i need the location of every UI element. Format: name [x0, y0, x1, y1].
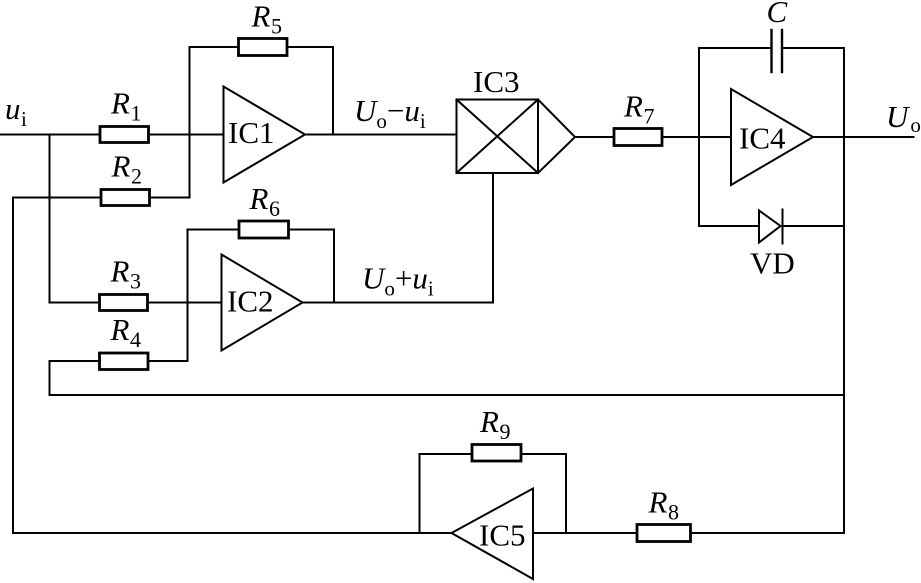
- svg-text:9: 9: [500, 419, 511, 444]
- resistor R7: [614, 129, 662, 146]
- svg-text:2: 2: [131, 164, 142, 189]
- wire R3 left: [50, 302, 100, 304]
- wire IC4 output Uo: [813, 136, 914, 138]
- wire R7 to IC4 input: [662, 136, 731, 138]
- op-amp IC1: [224, 87, 306, 183]
- svg-text:IC3: IC3: [473, 64, 520, 99]
- wire IC3 bottom input vertical: [492, 173, 494, 303]
- wire R6 top left: [188, 229, 240, 231]
- wire R4 drop vertical: [49, 361, 51, 395]
- wire R5 loop right vertical: [332, 47, 334, 135]
- wire R3 to IC2 input: [148, 302, 222, 304]
- capacitor C plates: [770, 30, 772, 72]
- wire input ui: [0, 134, 100, 136]
- wire R6 loop left vertical: [187, 230, 189, 362]
- wire R8 to IC5 input: [533, 532, 637, 534]
- wire R1 to IC1 input: [149, 134, 224, 136]
- wire feedback long horizontal: [50, 394, 845, 396]
- wire R2 left: [13, 197, 101, 199]
- wire R5 loop left vertical: [189, 47, 191, 198]
- svg-text:IC5: IC5: [479, 518, 526, 553]
- svg-text:IC2: IC2: [227, 284, 274, 319]
- svg-text:3: 3: [130, 269, 141, 294]
- resistor R5: [239, 39, 288, 56]
- svg-text:R: R: [110, 312, 130, 347]
- wire R9 top right: [521, 453, 566, 455]
- resistor R3: [100, 295, 148, 311]
- resistor R4: [100, 353, 149, 370]
- wire VD left: [699, 225, 759, 227]
- wire R2 right: [150, 197, 190, 199]
- wire R4 left: [50, 360, 100, 362]
- svg-text:VD: VD: [750, 246, 795, 281]
- resistor R2: [101, 190, 150, 206]
- svg-text:IC4: IC4: [739, 121, 786, 156]
- wire IC3 output to R7: [575, 136, 614, 138]
- wire R9 loop right vertical: [565, 454, 567, 533]
- wire R5 top right: [287, 46, 333, 48]
- wire VD right: [783, 225, 845, 227]
- resistor R9: [472, 445, 521, 462]
- op-amp IC2: [222, 255, 303, 351]
- svg-text:1: 1: [131, 101, 142, 126]
- resistor R8: [637, 525, 691, 542]
- svg-text:R: R: [111, 149, 131, 184]
- svg-text:R: R: [110, 86, 130, 121]
- wire R4 right: [148, 360, 188, 362]
- svg-text:R: R: [623, 89, 643, 124]
- multiplier IC3: [457, 100, 576, 174]
- svg-text:R: R: [648, 485, 668, 520]
- wire R9 top left: [420, 453, 473, 455]
- wire R9 loop left vertical: [419, 454, 421, 533]
- svg-text:5: 5: [271, 14, 282, 39]
- svg-text:R: R: [251, 0, 271, 34]
- wire R6 top right: [289, 229, 335, 231]
- wire R5 top left: [190, 46, 239, 48]
- wire left bus vertical: [12, 198, 14, 534]
- resistor R1: [100, 127, 149, 143]
- resistor R6: [239, 221, 289, 238]
- svg-text:Uo−ui: Uo−ui: [354, 93, 426, 133]
- svg-text:6: 6: [269, 196, 280, 221]
- svg-text:R: R: [479, 404, 499, 439]
- wire IC1 output to IC3: [305, 134, 457, 136]
- op-amp IC4: [731, 89, 813, 185]
- svg-text:i: i: [21, 107, 27, 131]
- wire R6 loop right vertical: [333, 230, 335, 303]
- svg-text:IC1: IC1: [228, 115, 275, 150]
- wire C right: [783, 47, 844, 49]
- diode VD: [759, 210, 783, 244]
- svg-text:R: R: [110, 254, 130, 289]
- wire IC5 output to left bus: [13, 532, 452, 534]
- wire IC2 output: [303, 302, 494, 304]
- svg-text:7: 7: [644, 104, 655, 129]
- svg-text:Uo+ui: Uo+ui: [362, 261, 434, 301]
- svg-text:u: u: [5, 91, 21, 126]
- wire C left: [699, 47, 771, 49]
- wire IC4 loop left vertical: [698, 48, 700, 226]
- op-amp IC5: [452, 489, 534, 580]
- svg-text:R: R: [249, 181, 269, 216]
- wire R8 right: [691, 532, 845, 534]
- wire right bus vertical: [843, 48, 845, 533]
- svg-text:C: C: [767, 0, 788, 29]
- svg-text:4: 4: [130, 327, 141, 352]
- svg-text:8: 8: [668, 500, 679, 525]
- node ui junction vertical: [49, 135, 51, 303]
